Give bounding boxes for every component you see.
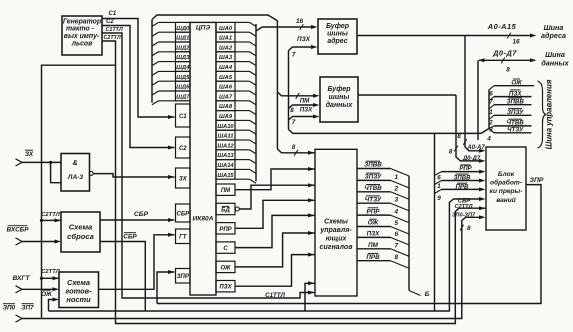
svg-text:БД: БД	[221, 208, 230, 214]
svg-text:ЛА-3: ЛА-3	[67, 174, 83, 181]
svg-text:С2ТТЛ: С2ТТЛ	[104, 35, 121, 41]
svg-text:ЗПЗУ: ЗПЗУ	[365, 174, 382, 181]
svg-text:сигналов: сигналов	[320, 244, 354, 251]
svg-text:ШД0: ШД0	[176, 26, 190, 32]
svg-text:ША12: ША12	[217, 143, 234, 149]
svg-text:Схема: Схема	[69, 223, 93, 232]
svg-text:ША15: ША15	[217, 173, 234, 179]
svg-text:адреса: адреса	[541, 31, 566, 40]
svg-text:3: 3	[395, 197, 399, 204]
svg-text:1: 1	[489, 109, 493, 116]
svg-text:ША1: ША1	[219, 36, 232, 42]
svg-text:ЗПР: ЗПР	[530, 177, 544, 184]
svg-text:ИК80А: ИК80А	[193, 216, 214, 223]
svg-text:8: 8	[395, 254, 399, 261]
svg-text:ОЖ: ОЖ	[220, 265, 230, 271]
svg-text:8: 8	[449, 149, 453, 156]
svg-text:ЗПВВ: ЗПВВ	[507, 98, 525, 105]
svg-text:ПЗХ: ПЗХ	[300, 107, 313, 114]
svg-text:2: 2	[394, 185, 399, 192]
svg-text:ЧТВВ: ЧТВВ	[364, 185, 382, 192]
svg-text:А0-А15: А0-А15	[487, 22, 517, 31]
svg-text:ЧТЗУ: ЧТЗУ	[507, 127, 524, 134]
svg-text:ША5: ША5	[219, 75, 233, 81]
svg-text:ШД7: ШД7	[176, 94, 190, 100]
svg-text:ОЖ: ОЖ	[41, 291, 53, 298]
svg-text:С2ТТЛ: С2ТТЛ	[41, 269, 60, 275]
svg-text:Буфер: Буфер	[326, 23, 350, 30]
svg-text:Д0-Д7: Д0-Д7	[492, 49, 517, 58]
svg-text:ЗПВВ: ЗПВВ	[364, 162, 382, 169]
svg-text:управля-: управля-	[319, 227, 352, 234]
svg-text:С2ТТЛ: С2ТТЛ	[41, 212, 60, 218]
svg-text:ШД6: ШД6	[176, 85, 190, 91]
svg-text:ША4: ША4	[219, 65, 233, 71]
svg-text:СБР: СБР	[134, 211, 149, 218]
svg-text:С1: С1	[109, 11, 117, 17]
svg-text:ПЗХ: ПЗХ	[367, 231, 381, 238]
svg-text:ЗПЗУ: ЗПЗУ	[507, 109, 524, 116]
svg-text:Генератор: Генератор	[63, 18, 101, 25]
svg-text:8: 8	[506, 66, 510, 73]
svg-text:шины: шины	[329, 94, 350, 101]
svg-text:С1ТТЛ: С1ТТЛ	[265, 292, 285, 299]
svg-text:А0-А7: А0-А7	[466, 145, 485, 151]
svg-text:данных: данных	[326, 101, 354, 109]
svg-text:7: 7	[292, 52, 296, 59]
svg-text:ПЗХ: ПЗХ	[297, 36, 311, 43]
svg-text:ЦПЭ: ЦПЭ	[196, 25, 211, 32]
svg-text:Б: Б	[425, 291, 430, 298]
svg-text:РПР: РПР	[367, 208, 381, 215]
svg-text:С1: С1	[179, 114, 187, 120]
svg-text:7: 7	[292, 119, 296, 126]
svg-text:ки преры-: ки преры-	[490, 188, 523, 195]
svg-text:8: 8	[467, 225, 471, 232]
svg-text:7: 7	[489, 98, 493, 105]
svg-text:ющих: ющих	[326, 235, 348, 242]
svg-text:ЗП0: ЗП0	[3, 304, 16, 311]
svg-text:ВХСБР: ВХСБР	[7, 226, 30, 233]
svg-text:адрес: адрес	[327, 37, 347, 45]
svg-text:такто -: такто -	[66, 26, 95, 33]
svg-text:ША3: ША3	[219, 55, 233, 61]
svg-text:ША9: ША9	[219, 114, 233, 120]
svg-text:СБР: СБР	[177, 211, 191, 217]
svg-text:льсов: льсов	[71, 40, 93, 47]
svg-text:ПМ: ПМ	[221, 188, 231, 194]
svg-text:6: 6	[489, 90, 493, 97]
svg-text:9: 9	[437, 195, 441, 202]
svg-text:ШД1: ШД1	[176, 36, 189, 42]
svg-text:ПРВ: ПРВ	[366, 254, 380, 261]
svg-text:6: 6	[437, 174, 441, 181]
svg-text:ПРВ: ПРВ	[456, 185, 469, 191]
svg-text:данных: данных	[541, 58, 569, 67]
svg-text:С2: С2	[106, 19, 114, 25]
svg-text:ЗП0-ЗП7: ЗП0-ЗП7	[452, 213, 476, 219]
svg-text:8: 8	[290, 107, 294, 114]
svg-text:ЗПВВ: ЗПВВ	[454, 175, 472, 181]
svg-text:ШД4: ШД4	[176, 65, 190, 71]
svg-text:С1ТТЛ: С1ТТЛ	[106, 27, 123, 33]
svg-text:4: 4	[486, 136, 491, 143]
svg-text:6: 6	[395, 231, 399, 238]
svg-text:Д0-Д7: Д0-Д7	[462, 156, 481, 162]
svg-text:обработ-: обработ-	[490, 179, 522, 187]
svg-text:8: 8	[457, 133, 461, 140]
svg-text:ваний: ваний	[496, 196, 516, 204]
svg-text:СБР: СБР	[123, 233, 137, 240]
svg-text:ЗХ: ЗХ	[25, 151, 34, 158]
svg-text:Блок: Блок	[498, 171, 515, 178]
svg-text:С2: С2	[179, 146, 187, 152]
svg-text:ША8: ША8	[219, 104, 233, 110]
svg-text:&: &	[72, 160, 77, 167]
svg-text:С: С	[223, 246, 228, 252]
svg-text:4: 4	[394, 209, 399, 216]
svg-text:ЗП7: ЗП7	[21, 304, 34, 311]
svg-text:Шина управления: Шина управления	[545, 79, 554, 149]
svg-text:1: 1	[395, 174, 399, 181]
svg-text:ОЖ: ОЖ	[368, 220, 380, 227]
svg-text:ША11: ША11	[218, 134, 234, 140]
svg-text:3: 3	[489, 127, 493, 134]
svg-text:16: 16	[512, 38, 520, 45]
svg-text:ША6: ША6	[219, 85, 233, 91]
svg-text:Буфер: Буфер	[327, 86, 351, 93]
svg-text:ША14: ША14	[217, 163, 234, 169]
svg-text:5: 5	[395, 220, 399, 227]
svg-text:ШД3: ШД3	[176, 55, 190, 61]
svg-text:ПЗХ: ПЗХ	[219, 285, 232, 291]
svg-text:ОЖ: ОЖ	[511, 79, 523, 86]
svg-text:вых импу-: вых импу-	[64, 33, 100, 40]
svg-text:ШД2: ШД2	[176, 45, 190, 51]
svg-text:шины: шины	[327, 31, 348, 38]
svg-text:ЗПР: ЗПР	[177, 274, 190, 280]
svg-text:8: 8	[292, 144, 296, 151]
svg-text:1: 1	[437, 183, 441, 190]
svg-text:ПМ: ПМ	[368, 242, 379, 249]
svg-text:ЗХ: ЗХ	[179, 176, 188, 182]
svg-text:ЧТЗУ: ЧТЗУ	[365, 196, 382, 203]
svg-text:ША2: ША2	[219, 45, 233, 51]
svg-text:ПМ: ПМ	[300, 98, 310, 105]
svg-text:сброса: сброса	[67, 232, 94, 241]
svg-text:РПР: РПР	[219, 227, 232, 233]
svg-text:ПЗХ: ПЗХ	[509, 90, 522, 97]
svg-text:ША0: ША0	[219, 26, 233, 32]
svg-text:ШД5: ШД5	[176, 75, 190, 81]
svg-text:ША10: ША10	[217, 124, 234, 130]
svg-text:ША7: ША7	[219, 94, 233, 100]
svg-text:Схема: Схема	[67, 278, 90, 287]
svg-text:16: 16	[296, 18, 304, 25]
svg-text:ВХГТ: ВХГТ	[13, 275, 31, 282]
svg-text:Схемы: Схемы	[324, 218, 348, 225]
svg-text:ности: ности	[66, 295, 91, 304]
svg-text:РПР: РПР	[459, 166, 472, 172]
svg-text:С2ТТЛ: С2ТТЛ	[455, 204, 473, 210]
svg-text:7: 7	[395, 242, 399, 249]
svg-text:ША13: ША13	[217, 153, 234, 159]
